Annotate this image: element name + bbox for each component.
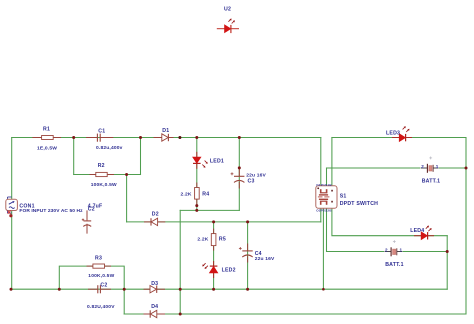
svg-text:1: 1 [400, 247, 403, 252]
svg-text:100K,0.5W: 100K,0.5W [88, 273, 114, 279]
svg-text:O1P1S1B: O1P1S1B [316, 183, 332, 187]
wire C4 vertical [247, 222, 249, 289]
resistor R2 [90, 163, 117, 188]
battery BATT1 top [420, 157, 440, 185]
svg-text:22u 16V: 22u 16V [255, 256, 275, 262]
svg-text:R4: R4 [202, 192, 209, 198]
svg-text:LED3: LED3 [386, 130, 400, 136]
LED LED4 [410, 226, 434, 240]
resistor R1 [32, 127, 61, 152]
svg-text:C3: C3 [248, 179, 255, 185]
wire R2 row [74, 174, 141, 176]
wire D4 row [124, 313, 466, 315]
wire R2 left vertical [73, 138, 75, 175]
capacitor C2 bottom [87, 282, 115, 310]
svg-text:R1: R1 [43, 127, 50, 133]
svg-text:FOR INPUT 230V AC 50 Hz: FOR INPUT 230V AC 50 Hz [19, 208, 83, 214]
junction dot row1 x140.5 [139, 136, 142, 139]
capacitor C2 4.7uF floating [82, 203, 103, 233]
junction dot bottom row x180.2 [179, 288, 182, 291]
wire BATT1 row [327, 167, 467, 169]
capacitor C4 polarized [239, 244, 275, 263]
resistor R4 [181, 183, 210, 206]
capacitor C1 [86, 129, 123, 151]
wire D4 branch vertical [123, 289, 125, 314]
junction dot bottom row left [10, 288, 13, 291]
wire D2 row [127, 221, 321, 223]
wire branch to D2 row [126, 175, 128, 222]
wire right vertical [465, 138, 467, 315]
capacitor C3 polarized [231, 168, 267, 189]
wire switch top pin 1 [320, 138, 322, 187]
junction dot CON1 bottom [9, 214, 12, 217]
svg-text:BATT.1: BATT.1 [385, 262, 404, 268]
wire switch bottom pin 1 [320, 208, 322, 222]
junction dot bottom row x247.6 [246, 288, 249, 291]
wire R2 right vertical [140, 138, 142, 175]
diode D4 [144, 304, 166, 318]
junction dot bottom row x213.6 [212, 288, 215, 291]
svg-text:D2: D2 [152, 211, 159, 217]
LED U2 floating [217, 7, 239, 33]
wire switch bottom pin 4 to LED4 row [332, 208, 447, 235]
wire bottom row [12, 288, 448, 290]
svg-text:C1: C1 [98, 129, 105, 135]
svg-text:0.82U,400V: 0.82U,400V [87, 304, 115, 310]
wire LED4 right vertical [446, 236, 448, 290]
junction dot BATT1 right x466 [465, 167, 468, 170]
svg-text:LED1: LED1 [210, 158, 224, 164]
junction dot bottom row x59.3 [58, 288, 61, 291]
junction dot C4 top [246, 220, 249, 223]
wire LED3 branch top row [332, 137, 466, 139]
diode D1 [154, 128, 174, 141]
junction dot R5 top [212, 220, 215, 223]
svg-text:C2: C2 [100, 282, 107, 288]
svg-text:R5: R5 [219, 237, 226, 243]
svg-text:0.82u,400v: 0.82u,400v [96, 145, 123, 151]
junction dot row1 x239.3 [238, 136, 241, 139]
svg-text:LED4: LED4 [410, 228, 424, 234]
battery BATT1 bottom [384, 240, 404, 268]
junction dot bottom row x323.4 [322, 288, 325, 291]
wire C3 vertical [238, 138, 240, 211]
LED LED2 [202, 261, 235, 278]
svg-text:DPDT SWITCH: DPDT SWITCH [340, 201, 378, 207]
svg-text:S1: S1 [340, 193, 347, 199]
switch S1 DPDT [316, 183, 378, 213]
LED LED3 [386, 126, 412, 141]
svg-text:2.2K: 2.2K [181, 192, 192, 198]
wire switch top pin 2 [326, 168, 328, 186]
diode D2 [144, 211, 165, 225]
junction dot R2 row x126.6 [125, 173, 128, 176]
junction dot bottom row x124.2 [123, 288, 126, 291]
junction dot under R4 upper [195, 204, 198, 207]
svg-text:D1: D1 [162, 128, 169, 134]
svg-text:C2: C2 [88, 207, 95, 213]
resistor R3 [87, 256, 115, 280]
svg-text:BATT.1: BATT.1 [422, 178, 441, 184]
diode D3 [144, 281, 166, 293]
wire top row main [12, 137, 321, 139]
junction dot D4 row x180.2 [179, 313, 182, 316]
svg-text:O2P2S2B: O2P2S2B [316, 208, 332, 212]
svg-text:1E,0.5W: 1E,0.5W [37, 146, 57, 152]
wire R5 LED2 vertical [213, 222, 215, 289]
wire long vertical x180 [179, 210, 181, 314]
LED LED1 [193, 152, 224, 169]
junction dot BATT2 right x447.2 [446, 250, 449, 253]
svg-text:D4: D4 [151, 304, 158, 310]
resistor R5 [197, 229, 226, 251]
wire A row under R4 [180, 209, 239, 211]
wire switch bottom pin 2 long vertical [322, 208, 324, 289]
connector CON1 [6, 197, 83, 214]
svg-text:2: 2 [421, 164, 424, 169]
svg-text:R2: R2 [98, 163, 105, 169]
svg-text:100K,0.5W: 100K,0.5W [91, 182, 117, 188]
wire left vertical [11, 138, 13, 290]
wire switch top pin 3 [331, 138, 333, 187]
svg-text:2: 2 [385, 247, 388, 252]
junction dot C3 top x239.3 [238, 166, 241, 169]
junction dot under R4 on wire A [195, 209, 198, 212]
junction dot row1 x73.7 [72, 136, 75, 139]
svg-text:D3: D3 [151, 281, 158, 287]
svg-text:LED2: LED2 [222, 268, 236, 274]
svg-text:U2: U2 [224, 7, 231, 13]
wire R3 loop [59, 266, 124, 289]
svg-text:2.2K: 2.2K [197, 237, 208, 243]
junction dot row1 x196.8 [195, 136, 198, 139]
wire switch bottom pin 3 to BATT2 row [327, 208, 448, 251]
wire LED1 R4 vertical [196, 138, 198, 211]
svg-text:1: 1 [436, 164, 439, 169]
junction dot row1 x179.9 [178, 136, 181, 139]
svg-text:R3: R3 [95, 256, 102, 262]
